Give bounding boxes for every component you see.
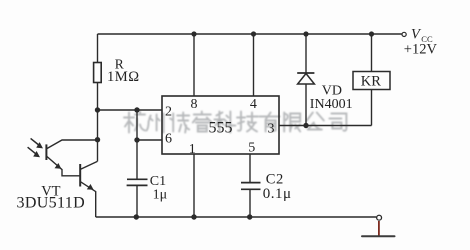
wire: C1 branch vertical upper — [136, 110, 138, 179]
node pin1-bottom — [191, 214, 196, 219]
wire: pin1 vertical — [193, 154, 195, 217]
char 有 — [260, 113, 280, 132]
char 将 — [170, 113, 189, 133]
svg-text:KR: KR — [361, 74, 381, 90]
watermark 杭州将睿科技有限公司 (drawn strokes) — [124, 112, 346, 133]
wire: left vertical below R — [97, 83, 99, 162]
char 杭 — [124, 112, 145, 133]
transistor T2 emitter — [81, 182, 96, 217]
char 科 — [214, 112, 235, 133]
capacitor C1 — [127, 179, 148, 185]
resistor R — [94, 63, 102, 83]
wire: bottom rail — [96, 216, 377, 218]
light arrow 2 — [28, 147, 37, 155]
transistor T2 collector — [81, 161, 98, 169]
svg-text:2: 2 — [165, 105, 172, 120]
wire: pin8 vertical — [193, 34, 195, 96]
node pin8/top — [191, 31, 196, 36]
svg-text:4: 4 — [250, 97, 257, 112]
svg-text:6: 6 — [165, 132, 172, 147]
char 技 — [237, 112, 258, 132]
svg-text:8: 8 — [191, 97, 198, 112]
wire: C2 lower — [249, 189, 251, 217]
transistor T2 base bar — [79, 164, 81, 187]
ground bar — [362, 235, 395, 237]
char 限 — [284, 113, 300, 132]
char 睿 — [193, 112, 212, 132]
node relay/top — [369, 31, 374, 36]
svg-text:1: 1 — [189, 142, 196, 157]
wires and components — [94, 34, 402, 217]
svg-text:5: 5 — [248, 141, 255, 156]
node C1-pin2 — [134, 107, 139, 112]
wire: pin6 horizontal — [137, 139, 162, 141]
svg-text:1MΩ: 1MΩ — [107, 69, 140, 85]
node R-pin2 — [95, 107, 100, 112]
wire: relay top — [371, 34, 373, 72]
transistor T1 emitter — [47, 156, 80, 175]
wire: pin4 vertical — [253, 34, 255, 96]
wire: pin3 horizontal — [279, 125, 372, 127]
svg-text:555: 555 — [209, 119, 233, 136]
wire: top rail — [98, 33, 402, 35]
terminal Vcc — [402, 32, 406, 36]
node C2-bottom — [247, 214, 252, 219]
svg-text:3: 3 — [268, 121, 275, 136]
svg-text:+12V: +12V — [404, 42, 438, 58]
svg-text:1μ: 1μ — [153, 188, 168, 203]
node C1-bottom — [134, 214, 139, 219]
wire: left vertical above R — [97, 34, 99, 63]
node pin4/top — [251, 31, 256, 36]
wire: pin5 vertical — [249, 154, 251, 183]
wire: diode branch upper — [305, 34, 307, 73]
transistor T1 base bar — [45, 144, 47, 160]
char 州 — [147, 114, 164, 133]
node diode-pin3 — [303, 123, 308, 128]
terminal bottom-right — [377, 215, 382, 220]
node T1 collector — [95, 137, 100, 142]
char 公 — [307, 113, 324, 130]
wire red stub — [378, 221, 380, 236]
svg-text:3DU511D: 3DU511D — [17, 195, 86, 212]
wire: pin2 horizontal — [98, 109, 163, 111]
svg-text:IN4001: IN4001 — [310, 97, 353, 112]
light arrow 1 — [31, 138, 40, 146]
wire: relay bottom — [371, 90, 373, 126]
capacitor C2 — [241, 183, 261, 190]
node diode/top — [303, 31, 308, 36]
wire: C1 lower — [136, 185, 138, 217]
transistor T1 collector — [47, 140, 98, 149]
diode VD — [297, 72, 314, 74]
char 司 — [329, 114, 346, 131]
wire: diode branch lower — [305, 84, 307, 126]
relay KR box — [353, 72, 390, 90]
transistor VT darlington — [28, 138, 98, 217]
node C1-pin6 — [134, 137, 139, 142]
svg-text:0.1μ: 0.1μ — [263, 186, 292, 202]
op IC 555 box — [162, 96, 279, 154]
